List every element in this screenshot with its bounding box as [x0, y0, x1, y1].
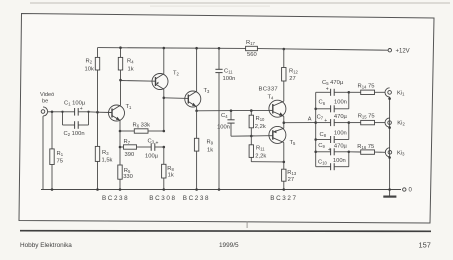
wire T3 collector to rail [196, 48, 198, 91]
svg-text:R16 75: R16 75 [357, 144, 374, 150]
node T1 collector / T2 base [119, 79, 122, 82]
svg-text:Videó: Videó [40, 92, 54, 98]
svg-text:C10: C10 [318, 159, 328, 165]
svg-text:560: 560 [247, 52, 257, 58]
capacitor C8 100n [316, 131, 349, 143]
node base T1 [96, 111, 99, 114]
wire T3 emitter to T4 base [197, 109, 270, 111]
svg-text:+: + [324, 118, 327, 124]
svg-text:+: + [80, 106, 83, 112]
svg-text:T1: T1 [126, 104, 133, 110]
svg-text:R3: R3 [102, 150, 109, 156]
svg-text:75: 75 [57, 159, 63, 165]
svg-text:R4: R4 [127, 59, 134, 65]
svg-text:1k: 1k [128, 67, 134, 73]
resistor R10 2,2k [249, 109, 266, 136]
svg-text:330: 330 [123, 174, 133, 180]
resistor R1 75 [50, 112, 64, 190]
wire to T2 base [121, 80, 156, 83]
svg-text:27: 27 [289, 76, 295, 82]
svg-text:BC238: BC238 [183, 195, 210, 202]
output connector Ki1 [385, 88, 405, 97]
svg-text:2,2k: 2,2k [255, 154, 266, 160]
top rail right section [257, 49, 388, 51]
svg-text:R13: R13 [287, 170, 297, 176]
svg-text:+: + [328, 147, 331, 153]
capacitor C3 100µ [145, 139, 165, 160]
svg-text:157: 157 [419, 241, 431, 250]
transistor T5 BC327 [269, 126, 296, 146]
footer rule [20, 230, 431, 233]
resistor R4 1k [118, 46, 134, 80]
0 terminal [403, 188, 413, 194]
wire T2 emitter down [163, 89, 165, 131]
svg-text:R11: R11 [256, 146, 265, 152]
capacitor C6 100n [316, 100, 349, 113]
svg-text:T5: T5 [290, 140, 297, 146]
+12V terminal [388, 49, 410, 55]
svg-text:R1: R1 [57, 151, 64, 157]
svg-text:BC238: BC238 [102, 195, 129, 202]
wire T3 emitter down [196, 107, 198, 111]
wire R11 to T5 collector node [251, 161, 283, 163]
transistor T1 BC238 [98, 104, 133, 121]
resistor R15 75 [349, 114, 385, 125]
svg-text:+: + [326, 86, 329, 92]
svg-text:470µ: 470µ [334, 144, 348, 150]
resistor R7 390 [119, 139, 152, 158]
capacitor C10 100n [316, 158, 349, 170]
svg-text:100n: 100n [334, 100, 347, 106]
svg-text:C11: C11 [224, 69, 233, 75]
output connector Ki3 [385, 148, 405, 157]
capacitor C7 470µ [316, 114, 349, 126]
wire C4 bottom to T5 base [231, 135, 269, 138]
wire to T3 base [164, 97, 189, 100]
svg-text:470µ: 470µ [334, 114, 348, 120]
svg-text:T3: T3 [204, 88, 211, 94]
wire T5 collector down [283, 143, 285, 170]
right bar group 1 [348, 92, 350, 109]
node T2 emitter / T3 base [163, 97, 166, 100]
ground [383, 190, 396, 197]
svg-text:be: be [42, 99, 48, 105]
svg-text:BC327: BC327 [270, 195, 297, 202]
svg-text:Ki2: Ki2 [397, 121, 405, 127]
svg-text:C6: C6 [319, 100, 326, 106]
wire T2 collector to rail [163, 48, 165, 74]
resistor R6 33k [119, 123, 165, 134]
svg-text:C3: C3 [148, 139, 155, 145]
svg-text:C2 100n: C2 100n [64, 131, 85, 137]
svg-text:T4: T4 [268, 94, 275, 100]
svg-text:1999/5: 1999/5 [219, 242, 239, 249]
svg-text:C4: C4 [221, 113, 228, 119]
node R10/R11 [250, 135, 253, 138]
svg-text:390: 390 [125, 152, 135, 158]
wire T1 collector to R4 node [120, 80, 122, 105]
svg-text:1k: 1k [168, 172, 174, 178]
resistor R14 75 [349, 84, 385, 95]
svg-text:C7: C7 [317, 114, 324, 120]
node emitters junction [283, 121, 286, 124]
resistor R16 75 [349, 144, 385, 154]
resistor R9 1k [194, 111, 213, 190]
svg-text:R9: R9 [207, 139, 214, 145]
resistor R5 330 [118, 165, 133, 190]
svg-text:27: 27 [288, 177, 294, 183]
svg-text:R8: R8 [167, 166, 174, 172]
svg-text:Hobby Elektronika: Hobby Elektronika [20, 242, 72, 249]
bottom rail [41, 189, 401, 191]
wire node A to bus [284, 122, 316, 124]
svg-text:R7: R7 [124, 139, 131, 145]
resistor R3 1,5k [95, 112, 112, 189]
wire input to node [48, 111, 98, 113]
capacitor C2 100n [63, 121, 89, 137]
wire T4 emitter to node A [283, 116, 285, 128]
svg-text:100n: 100n [217, 125, 230, 131]
svg-text:R17: R17 [246, 40, 256, 46]
svg-text:C8: C8 [320, 132, 327, 138]
capacitor C4 100n [217, 109, 235, 136]
svg-text:10k: 10k [85, 67, 94, 73]
svg-text:R2: R2 [86, 59, 93, 65]
bus node A vertical [315, 92, 317, 166]
resistor R12 27 [282, 48, 299, 101]
svg-text:100n: 100n [333, 158, 346, 164]
resistor R8 1k [162, 147, 175, 190]
transistor T4 BC337 [259, 87, 286, 118]
svg-text:R12: R12 [289, 69, 299, 75]
wire input shield down [42, 116, 44, 189]
right bar group 3 [348, 152, 350, 167]
capacitor C5 470µ [316, 80, 348, 96]
svg-text:100µ: 100µ [145, 154, 159, 160]
wire shield bus outputs [389, 97, 391, 190]
capacitor C1 100µ [61, 100, 89, 125]
output connector Ki2 [385, 118, 405, 127]
capacitor C11 100n [215, 47, 235, 190]
node input/R1 [51, 111, 54, 114]
svg-text:2,2k: 2,2k [255, 124, 266, 130]
svg-text:T2: T2 [173, 71, 180, 77]
svg-text:BC337: BC337 [259, 87, 279, 93]
svg-text:100n: 100n [223, 76, 236, 82]
svg-text:100n: 100n [334, 131, 347, 137]
svg-text:Ki1: Ki1 [397, 91, 405, 97]
svg-text:C9: C9 [318, 143, 325, 149]
resistor R13 27 [282, 169, 297, 189]
svg-text:R14 75: R14 75 [358, 84, 375, 90]
resistor R11 2,2k [249, 136, 266, 162]
input connector Videó be [40, 92, 54, 116]
wire T1 emitter down [119, 121, 121, 165]
resistor R2 10k [85, 48, 100, 113]
svg-text:A: A [308, 117, 312, 123]
svg-text:R6 33k: R6 33k [133, 123, 151, 129]
svg-text:+: + [156, 141, 159, 147]
top rail left section [98, 47, 246, 50]
svg-text:BC308: BC308 [149, 195, 176, 202]
svg-text:1,5k: 1,5k [102, 158, 113, 164]
transistor T2 BC308 [152, 71, 180, 90]
svg-text:R15 75: R15 75 [358, 114, 375, 120]
capacitor C9 470µ [316, 143, 349, 155]
svg-text:+12V: +12V [396, 49, 410, 55]
svg-text:Ki3: Ki3 [397, 150, 405, 156]
transistor T3 BC238 [185, 88, 210, 107]
svg-text:R10: R10 [256, 116, 266, 122]
resistor R17 560 in rail [246, 40, 258, 58]
svg-text:C5 470µ: C5 470µ [322, 80, 344, 86]
right bar group 2 [348, 123, 350, 140]
svg-text:1k: 1k [207, 147, 213, 153]
